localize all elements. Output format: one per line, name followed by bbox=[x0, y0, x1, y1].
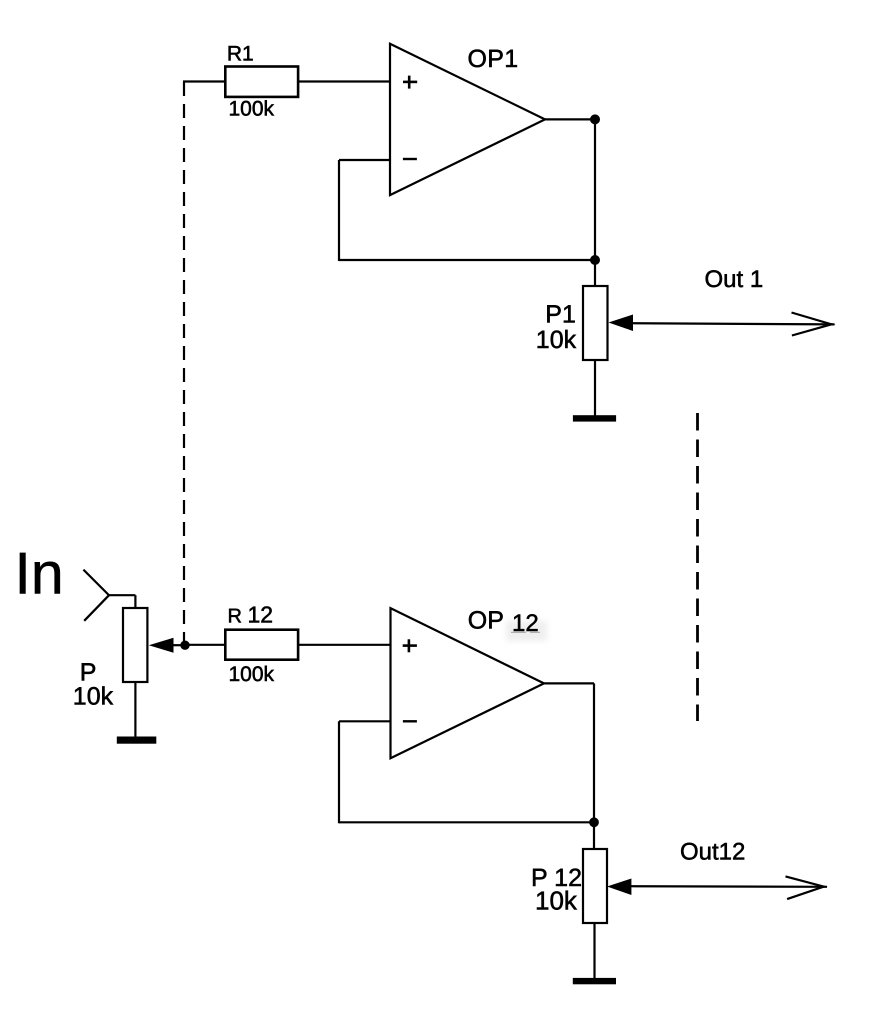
wire node to R12 bbox=[185, 644, 226, 646]
wire P12 to ground bbox=[593, 923, 595, 979]
pin - (OP1) bbox=[403, 158, 417, 160]
wire R1 to op-amp bbox=[298, 80, 391, 82]
potentiometer P12 bbox=[583, 849, 607, 923]
artifact underline under 12 bbox=[511, 631, 540, 633]
wire R1 left bbox=[183, 80, 226, 82]
potentiometer P1 bbox=[583, 286, 608, 360]
svg-text:OP1: OP1 bbox=[468, 45, 519, 73]
op-amp OP1 bbox=[390, 44, 545, 195]
wire feedback horizontal OP1 bbox=[339, 259, 595, 261]
svg-text:10k: 10k bbox=[536, 326, 577, 354]
svg-text:Out 1: Out 1 bbox=[705, 266, 764, 293]
wire feedback vertical OP12 bbox=[338, 721, 340, 823]
arrowhead Out12 (open) bbox=[786, 876, 824, 899]
svg-text:P1: P1 bbox=[545, 301, 576, 329]
wiper arrow P12 bbox=[607, 879, 631, 896]
wire P1 to ground bbox=[594, 360, 596, 416]
smudge under 12 bbox=[506, 621, 547, 641]
wire feedback horizontal OP12 bbox=[339, 821, 594, 823]
wire feedback vertical OP1 bbox=[338, 160, 340, 261]
wire R12 to op-amp bbox=[298, 644, 391, 646]
pin + (OP1) bbox=[403, 76, 417, 89]
node feedback junction OP1 bbox=[590, 255, 600, 265]
wire OP1 output bbox=[545, 118, 595, 120]
ground (P12) bbox=[573, 978, 616, 984]
resistor R12 bbox=[225, 630, 298, 660]
wire minus stub OP12 bbox=[339, 720, 391, 722]
svg-text:Out12: Out12 bbox=[680, 839, 745, 866]
pin - (OP12) bbox=[403, 720, 417, 722]
wire output down to P1 bbox=[594, 119, 596, 286]
op-amp OP12 bbox=[391, 608, 545, 758]
dashed continuation line (right) bbox=[696, 413, 699, 721]
svg-text:OP: OP bbox=[468, 607, 504, 635]
wire Out12 arrow line bbox=[628, 885, 827, 888]
svg-text:10k: 10k bbox=[73, 682, 114, 710]
node input junction bbox=[180, 641, 189, 650]
pin + (OP12) bbox=[403, 639, 417, 652]
potentiometer P bbox=[123, 608, 147, 682]
dashed wire to R1 bbox=[183, 82, 185, 645]
wiper arrow P bbox=[149, 638, 174, 653]
svg-text:10k: 10k bbox=[535, 886, 578, 916]
ground (P1) bbox=[573, 415, 616, 421]
node OP1 output bbox=[590, 114, 600, 124]
svg-text:In: In bbox=[15, 541, 64, 607]
svg-text:R1: R1 bbox=[227, 43, 254, 66]
wire P to ground bbox=[134, 682, 136, 737]
resistor R1 bbox=[225, 67, 298, 97]
arrowhead Out 1 (open) bbox=[792, 313, 832, 336]
ground (P) bbox=[117, 737, 157, 744]
wire OP12 output bbox=[544, 682, 594, 684]
svg-text:R 12: R 12 bbox=[228, 602, 274, 628]
input connector bbox=[83, 570, 135, 621]
svg-text:100k: 100k bbox=[229, 98, 275, 121]
wire wiper to node bbox=[170, 644, 186, 646]
wiper arrow P1 bbox=[609, 315, 634, 332]
node feedback junction OP12 bbox=[589, 817, 599, 827]
wire Out 1 arrow line bbox=[630, 323, 835, 324]
wire output down to P12 bbox=[593, 683, 595, 849]
svg-text:100k: 100k bbox=[229, 663, 275, 686]
wire minus stub OP1 bbox=[339, 159, 390, 161]
